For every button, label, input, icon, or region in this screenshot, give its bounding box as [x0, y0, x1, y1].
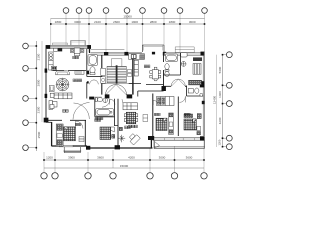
shaft duct (hatched): [119, 127, 122, 130]
corridor wall right: [117, 99, 119, 148]
column stair-br: [127, 94, 133, 98]
armchair left: [49, 85, 54, 91]
svg-text:1800: 1800: [55, 20, 62, 24]
counter top row: [129, 54, 145, 60]
column right-top corner: [201, 52, 205, 56]
bay window 2 top-left (dining bay): [71, 41, 86, 46]
column hall-left: [87, 81, 89, 83]
column right-mid: [200, 81, 205, 87]
right top window: [175, 47, 194, 53]
dim ticks left: [36, 45, 38, 148]
left exterior wall (window band): [45, 45, 46, 122]
column living-right wall: [86, 71, 89, 75]
toilet right: [165, 64, 169, 70]
svg-text:3000: 3000: [159, 156, 166, 160]
top total dim line: [51, 17, 205, 19]
svg-text:2100: 2100: [36, 53, 40, 60]
dim numbers bottom: [46, 156, 193, 168]
appliance dark bottom of kitchen: [52, 66, 57, 70]
label living right: [129, 125, 138, 128]
middle step wall (x90 vertical): [89, 49, 91, 53]
svg-text:2300: 2300: [36, 106, 40, 113]
door leaf living/bedroom: [143, 115, 148, 122]
svg-text:5600: 5600: [218, 66, 222, 73]
bottom total dim line: [44, 167, 204, 169]
leader lines to bubbles: [28, 46, 36, 148]
svg-text:1900: 1900: [131, 20, 138, 24]
column mid-bottom wall: [115, 145, 120, 149]
corridor walls: [86, 82, 88, 99]
toilet left bath: [90, 67, 95, 74]
column right axis-mid: [202, 101, 205, 104]
washing machine left bath: [101, 77, 106, 84]
side tables bedroom2: [197, 114, 201, 119]
wardrobe band top-right: [193, 57, 202, 61]
extension stems bottom: [44, 140, 204, 172]
column bay-right: [152, 52, 155, 55]
svg-text:2100: 2100: [94, 20, 101, 24]
svg-text:1800: 1800: [169, 20, 176, 24]
bath right wall: [164, 53, 181, 75]
bath wall bottom: [87, 76, 102, 78]
dining right wall: [163, 53, 165, 91]
bottom right bedroom wall (window band): [154, 138, 205, 141]
dining table right: [152, 70, 158, 79]
bed mid-bottom (hatched): [100, 127, 111, 140]
column top-left corner: [46, 45, 50, 49]
cabinet left of stair: [101, 68, 106, 75]
left unit bath top (tub): [88, 55, 98, 66]
study label: [63, 110, 69, 113]
column mid-top-1: [104, 52, 108, 56]
bed top-right: [193, 64, 201, 75]
kitchen stove dark on top wall: [58, 48, 62, 51]
study desk: [49, 101, 53, 110]
bed right-2 (hatched): [184, 119, 196, 130]
left bedroom wall right: [84, 120, 86, 146]
living sofa right unit: [123, 103, 138, 110]
svg-text:2500: 2500: [37, 131, 41, 138]
axis bubbles right: [226, 52, 232, 150]
bath2 walls: [95, 99, 115, 126]
top segment dim line: [51, 23, 205, 25]
dim ticks top: [50, 23, 205, 25]
left dim line: [35, 41, 37, 151]
TV bench: [75, 71, 84, 74]
dim numbers right (rotated): [213, 66, 223, 145]
svg-text:3600: 3600: [186, 156, 193, 160]
column left axis-2: [45, 69, 48, 73]
svg-text:1400: 1400: [218, 91, 222, 98]
label living left: [73, 79, 82, 82]
landing window top: [108, 52, 125, 54]
label bedroom r1: [154, 113, 160, 116]
column corridor left-unit: [89, 97, 94, 100]
svg-text:3000: 3000: [189, 20, 196, 24]
right kitchen bay window: [142, 45, 164, 52]
door arc bedroom1: [153, 100, 158, 105]
label bedroom mid: [95, 119, 101, 122]
basin: [181, 62, 186, 67]
left unit entry arcs: [90, 80, 99, 84]
dresser bedroom2: [184, 114, 193, 118]
wardrobe right unit 1: [157, 97, 175, 106]
round table living (dartboard): [56, 78, 69, 91]
svg-text:2600: 2600: [113, 20, 120, 24]
middle top wall (stair block): [91, 53, 142, 55]
dining table left unit: [74, 48, 80, 54]
leaders: [223, 55, 227, 147]
bidet right: [165, 71, 169, 76]
study2 wall right: [150, 136, 152, 148]
wardrobe bedroom left: [56, 124, 63, 146]
right section top wall: [165, 53, 205, 55]
label dining left: [73, 56, 79, 59]
bottom segment dim line: [44, 159, 204, 161]
bath2 toilet: [95, 98, 97, 102]
dim ticks bottom: [43, 159, 205, 161]
column bottom-left-unit: [86, 146, 90, 150]
wall study/bedroom: [46, 119, 86, 121]
label bath2: [95, 117, 103, 119]
bedroom1 left wall: [152, 94, 154, 138]
hall arcs below stair: [102, 99, 130, 107]
label bedroom left: [75, 123, 81, 126]
dim ticks right: [222, 54, 224, 148]
column bedroom1-bottom: [148, 136, 154, 140]
stair left wall: [101, 55, 103, 95]
door arc bedroom-mid: [110, 99, 116, 105]
bedside dark mid: [112, 135, 115, 139]
bay window 1 top-left: [52, 43, 67, 45]
wall kitchen/living: [53, 70, 87, 72]
sofa row bottom of living: [54, 93, 72, 99]
right dim lines: [222, 55, 224, 147]
door arc bedroom2: [179, 96, 185, 102]
basin cabinet: [181, 53, 188, 57]
svg-text:4200: 4200: [128, 156, 135, 160]
upper flight handrail loop: [111, 59, 122, 67]
label study2: [125, 126, 131, 129]
dim numbers left (rotated): [36, 53, 41, 138]
washer boxes right of stair: [128, 69, 132, 72]
label bedroom r2: [184, 113, 190, 116]
stair center rail (dark): [116, 65, 118, 83]
axis bubbles bottom: [41, 173, 207, 179]
svg-text:3600: 3600: [97, 156, 104, 160]
living table right unit (dark): [126, 112, 136, 124]
threshold band: [94, 97, 101, 99]
column left axis-3: [45, 94, 48, 98]
column left-top-right: [87, 45, 91, 49]
column dining-top: [163, 52, 166, 56]
column left-mid: [44, 118, 49, 123]
right exterior wall (window band): [203, 52, 204, 136]
svg-text:2800: 2800: [150, 20, 157, 24]
left lower wall: [51, 122, 53, 146]
stair right wall: [132, 55, 134, 95]
bottom middle wall: [90, 147, 153, 149]
bath2 basin: [103, 98, 108, 103]
shelf bedroom left: [79, 137, 84, 142]
right balcony band: [154, 140, 205, 148]
svg-text:4200: 4200: [218, 117, 222, 124]
study door arcs: [73, 103, 90, 120]
kitchen counter band: [134, 60, 138, 76]
bedroom door arc: [76, 121, 84, 129]
hall double door arcs: [171, 79, 185, 86]
axis bubbles top: [63, 8, 207, 14]
bedroom wall mid right: [177, 97, 179, 137]
bed left-bottom (hatched): [64, 127, 76, 141]
dark shelf band below bed: [189, 80, 202, 85]
svg-text:15000: 15000: [120, 164, 129, 168]
kitchen counter left: [49, 52, 54, 70]
left unit hall wall: [86, 49, 88, 77]
left unit balcony bottom: [63, 147, 81, 153]
column stair-bl: [105, 94, 110, 98]
stair treads: [107, 67, 126, 83]
svg-text:3900: 3900: [68, 156, 75, 160]
entry door arcs: [106, 84, 127, 95]
bath3 top right: [187, 86, 204, 97]
svg-text:1200: 1200: [218, 139, 222, 145]
label kitchen: [144, 65, 150, 68]
top wall left unit (window band): [50, 46, 88, 49]
svg-text:3000: 3000: [74, 20, 81, 24]
hall wall right unit: [164, 85, 187, 87]
sink right kitchen (dark): [131, 54, 137, 59]
column dining-bottom: [162, 86, 166, 91]
desk at 45 deg: [128, 132, 141, 145]
shelf strip bedroom1: [169, 113, 174, 135]
column right-balcony: [200, 136, 205, 140]
bath right: tub: [166, 54, 178, 62]
svg-text:12400: 12400: [213, 95, 217, 104]
svg-text:15000: 15000: [123, 14, 132, 18]
corridor walls right unit: [138, 91, 164, 97]
axis bubbles left: [23, 43, 29, 150]
bath2 tub horizontal: [96, 109, 114, 117]
stair bay overhang line: [91, 48, 125, 50]
svg-text:1200: 1200: [46, 156, 53, 160]
svg-text:2900: 2900: [36, 79, 40, 86]
axis stems top: [51, 13, 205, 52]
kitchen bottom wall: [129, 84, 164, 85]
column mid-top-2: [124, 52, 128, 56]
settee curved top: [55, 71, 69, 75]
balcony door swing right: [155, 142, 160, 149]
dim numbers top: [55, 14, 196, 24]
kitchen sink bowls: [49, 54, 52, 57]
stair bottom landing line: [102, 83, 133, 85]
stove right kitchen (dark): [140, 55, 145, 60]
bed right-1 (hatched): [156, 118, 167, 130]
fan symbol: [118, 135, 125, 143]
bottom wall left unit: [52, 145, 87, 147]
